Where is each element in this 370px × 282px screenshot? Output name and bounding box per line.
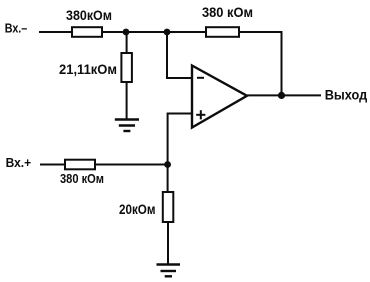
pin label - (inverting input): [197, 77, 204, 79]
svg-text:380 кОм: 380 кОм: [60, 171, 104, 186]
wire node B down to op-amp inverting input: [167, 32, 192, 78]
svg-text:20кОм: 20кОм: [119, 201, 156, 217]
node C (junction dot): [164, 161, 171, 168]
wire output node to Выход: [282, 94, 322, 96]
wire R5 to ground: [167, 222, 169, 265]
svg-text:Вх.–: Вх.–: [5, 22, 28, 36]
wire R2 to feedback corner and down to output node: [239, 32, 282, 95]
wire R4 to node C: [95, 164, 168, 166]
pin label + (non-inverting input): [196, 110, 205, 119]
node A (junction dot): [123, 29, 130, 36]
wire op-amp output to output node: [247, 94, 282, 96]
ground (R3 branch): [115, 120, 139, 132]
resistor R2 380кОм (feedback): [206, 27, 239, 37]
wire Вх.- to R1: [39, 31, 72, 33]
resistor R5 20кОм: [163, 192, 174, 222]
wire node B to R2: [167, 31, 206, 33]
ground (R5 branch): [157, 265, 181, 277]
svg-text:380 кОм: 380 кОм: [202, 4, 253, 20]
op-amp U1 (triangle): [192, 66, 247, 128]
svg-text:21,11кОм: 21,11кОм: [59, 61, 117, 77]
wire node C up to op-amp non-inverting input: [168, 114, 192, 165]
resistor R1 380кОм: [72, 27, 102, 37]
svg-text:Вх.+: Вх.+: [6, 156, 32, 170]
resistor R4 380кОм: [65, 160, 95, 170]
wire node A down to R3: [126, 32, 128, 53]
output node (junction dot): [278, 92, 285, 99]
wire Вх.+ to R4: [40, 164, 65, 166]
svg-text:380кОм: 380кОм: [66, 7, 112, 23]
svg-text:Выход: Выход: [325, 87, 368, 103]
wire node C down to R5: [167, 165, 169, 193]
node B (junction dot): [164, 29, 171, 36]
wire node A to node B: [126, 31, 167, 33]
wire R1 to node A: [102, 31, 126, 33]
wire R3 to ground: [126, 82, 128, 120]
resistor R3 21,11кОм: [121, 53, 131, 82]
